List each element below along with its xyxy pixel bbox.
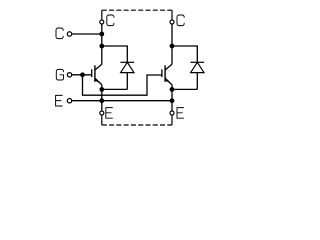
- diode D2 (antiparallel, right): [190, 62, 204, 89]
- node: diode D1 branch: [99, 44, 104, 49]
- Q2 emitter diagonal: [165, 79, 172, 85]
- terminal G: [67, 73, 71, 77]
- wire C aux to left leg: [72, 33, 102, 35]
- label C1: [107, 15, 114, 26]
- Q2 gate bar: [161, 69, 163, 77]
- terminal E aux (left): [67, 99, 71, 103]
- wire gate bus to Q2 gate: [83, 75, 162, 95]
- terminal E2 (bottom of right leg): [170, 111, 174, 115]
- Q2 emitter arrow: [166, 78, 170, 82]
- terminal E1 (bottom of left leg): [100, 111, 104, 115]
- wire to D2 cathode: [172, 46, 197, 62]
- node: E bus joins left leg: [99, 98, 104, 103]
- Q2 channel bar: [164, 65, 166, 82]
- label C2: [177, 15, 184, 26]
- wire Q1 emitter down: [101, 85, 103, 102]
- Q1 emitter arrow: [95, 78, 99, 82]
- wire left leg to E1 terminal: [101, 101, 103, 111]
- wire G to Q1 gate: [72, 74, 92, 76]
- node: E bus joins right leg: [170, 98, 175, 103]
- terminal C2 (top of right leg): [170, 20, 174, 24]
- Q1 collector diagonal: [95, 64, 102, 70]
- IGBT Q1 (left): [92, 64, 102, 84]
- wire left leg (C1 down to Q1 collector): [101, 24, 103, 64]
- Q1 emitter diagonal: [95, 79, 102, 85]
- node: Q1 emitter / D1 anode: [99, 87, 104, 92]
- dashed collector link (top, between C1 and C2 terminals): [102, 10, 172, 20]
- dashed emitter link (bottom, between E1 and E2 terminals): [102, 115, 172, 125]
- wire Q2 emitter down: [171, 85, 173, 111]
- wire right leg (C2 down to Q2 collector): [171, 24, 173, 64]
- wire D1 anode to Q1 emitter: [102, 88, 128, 90]
- node: gate bus junction: [80, 72, 85, 77]
- node: diode D2 branch: [170, 44, 175, 49]
- node: Q2 emitter / D2 anode: [170, 87, 175, 92]
- terminal C1 (top of left leg): [100, 20, 104, 24]
- label E2: [177, 108, 184, 119]
- node: C aux joins left leg: [99, 32, 104, 37]
- Q1 channel bar: [94, 65, 96, 82]
- diode D1 (antiparallel, left): [120, 62, 134, 89]
- wire D2 anode to Q2 emitter: [172, 88, 197, 90]
- Q2 collector diagonal: [165, 64, 172, 70]
- label E (aux emitter, left): [56, 95, 63, 106]
- label E1: [106, 108, 113, 119]
- label C (aux collector, left): [56, 28, 63, 39]
- wire E bus (aux E to both emitters): [72, 100, 172, 102]
- terminal C aux (left): [67, 32, 71, 36]
- label G: [56, 69, 63, 80]
- wire to D1 cathode: [102, 46, 128, 62]
- Q1 gate bar: [91, 69, 93, 77]
- IGBT Q2 (right): [162, 64, 172, 84]
